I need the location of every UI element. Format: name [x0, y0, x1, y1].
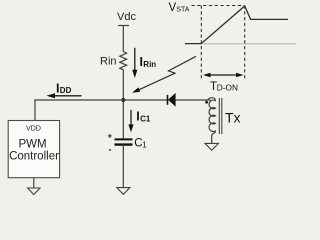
wire node A right to diode — [123, 99, 167, 101]
svg-text:VDD: VDD — [26, 126, 41, 133]
TD-ON label — [210, 81, 238, 93]
svg-text:1: 1 — [142, 141, 147, 150]
dashed vertical line at ramp peak — [244, 6, 246, 82]
svg-text:+: + — [108, 132, 113, 141]
svg-text:-: - — [109, 145, 112, 155]
waveform trace — [185, 6, 288, 44]
wire Vdc to resistor — [122, 26, 124, 52]
svg-text:C1: C1 — [140, 115, 151, 124]
current arrow IRin — [132, 48, 156, 78]
svg-text:Rin: Rin — [143, 60, 156, 69]
svg-text:Vdc: Vdc — [117, 11, 136, 23]
ground under capacitor — [117, 188, 130, 195]
svg-text:Tx: Tx — [225, 109, 241, 125]
dashed peak level line — [192, 5, 245, 7]
resistor Rin — [120, 52, 127, 70]
svg-text:V: V — [169, 2, 177, 14]
wire diode to transformer — [175, 99, 210, 101]
current arrow IDD — [46, 82, 81, 99]
waveform baseline (light) — [204, 43, 297, 45]
current arrow IC1 — [128, 110, 150, 133]
ground under PWM box — [28, 188, 40, 195]
transformer core lines — [218, 98, 220, 134]
ground under transformer — [205, 143, 218, 150]
TD-ON duration arrow — [203, 73, 243, 77]
diode D1 cathode bar — [167, 95, 169, 105]
svg-text:STA: STA — [176, 7, 189, 14]
dashed vertical line at ramp start — [200, 6, 202, 82]
wire capacitor to ground — [122, 145, 124, 188]
wire transformer to ground — [211, 135, 213, 143]
wire resistor to node A — [122, 70, 124, 100]
transformer phase dot — [205, 101, 208, 104]
wire node A left to PWM box — [35, 100, 123, 121]
svg-text:D-ON: D-ON — [217, 83, 238, 93]
svg-text:PWM: PWM — [18, 138, 46, 150]
node A junction dot — [121, 98, 125, 102]
svg-text:Rin: Rin — [100, 56, 117, 68]
lightning annotation arrow from waveform to node A — [139, 56, 196, 90]
diode D1 triangle — [168, 93, 176, 107]
wire node A down to capacitor — [122, 100, 124, 139]
capacitor C1 — [115, 139, 133, 144]
PWM controller box U1 — [8, 121, 59, 178]
svg-text:Controller: Controller — [9, 151, 59, 163]
svg-text:DD: DD — [60, 86, 72, 95]
C1 value label — [134, 138, 147, 150]
VSTA waveform label — [169, 2, 190, 14]
Vdc supply terminal — [118, 25, 129, 27]
transformer Tx primary winding — [208, 98, 216, 136]
wire PWM box to ground — [33, 178, 35, 188]
